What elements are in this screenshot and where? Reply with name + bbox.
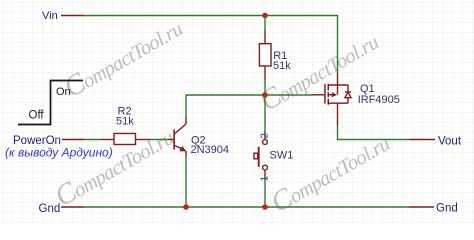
node Gnd label (right) <box>436 203 458 215</box>
waveform Off/On step <box>18 81 83 125</box>
svg-text:Vout: Vout <box>438 136 462 148</box>
label R1 <box>273 50 287 62</box>
label On <box>56 86 71 98</box>
watermark CompactTool.ru (upper-right) <box>255 24 384 117</box>
value 51k (R2) <box>116 116 134 128</box>
pin stub Vout <box>410 139 435 141</box>
label Off <box>29 110 45 122</box>
switch SW1 <box>254 131 267 180</box>
svg-text:(к выводу Ардуино): (к выводу Ардуино) <box>5 146 113 160</box>
resistor R2 <box>114 134 136 145</box>
svg-text:2N3904: 2N3904 <box>191 144 230 156</box>
watermark CompactTool.ru (lower-right) <box>266 126 395 219</box>
junction gate row <box>262 92 268 98</box>
wire Q2 emitter to ground <box>185 156 187 208</box>
pin stub PowerOn <box>62 139 84 141</box>
pin number 1 (SW1) <box>259 175 270 181</box>
junction Q2 emitter/gnd <box>183 204 189 210</box>
svg-text:51k: 51k <box>273 60 291 72</box>
wire SW1 top <box>264 95 266 131</box>
pin R2.1 <box>101 139 115 141</box>
node PowerOn label <box>13 135 61 147</box>
svg-text:Gnd: Gnd <box>39 203 61 215</box>
transistor Q2 <box>168 117 186 156</box>
svg-text:Gnd: Gnd <box>436 203 458 215</box>
watermark CompactTool.ru (lower-left) <box>50 120 179 213</box>
value IRF4905 <box>358 94 400 106</box>
pin R2.2 <box>136 139 151 141</box>
pin stub Vin <box>61 15 84 17</box>
watermark CompactTool.ru (upper-left) <box>59 11 188 104</box>
node Vout label <box>438 136 462 148</box>
wire R1 bottom <box>264 80 266 95</box>
value 2N3904 <box>191 144 230 156</box>
node Vin label <box>42 10 58 22</box>
svg-text:On: On <box>56 86 71 98</box>
wire Vin top rail <box>84 16 338 73</box>
label R2 <box>118 106 132 118</box>
label Q2 <box>191 135 206 147</box>
resistor R1 <box>259 44 271 66</box>
svg-text:SW1: SW1 <box>270 150 294 162</box>
svg-text:Q1: Q1 <box>360 83 375 95</box>
pin stub Gnd right <box>409 206 434 208</box>
svg-text:Off: Off <box>29 110 45 122</box>
label Q1 <box>360 83 375 95</box>
svg-text:51k: 51k <box>116 116 134 128</box>
junction SW1/gnd <box>262 204 268 210</box>
wire PowerOn to R2 <box>84 139 101 141</box>
wire R2 to Q2 base <box>150 139 168 141</box>
svg-text:Vin: Vin <box>42 10 58 22</box>
wire SW1 bottom <box>264 179 266 207</box>
pin R1.2 <box>264 67 266 81</box>
svg-text:IRF4905: IRF4905 <box>358 94 400 106</box>
wire ground rail <box>84 206 409 208</box>
junction Vin/R1 <box>262 13 268 19</box>
svg-text:2: 2 <box>259 133 270 139</box>
pin R1.1 <box>264 30 266 44</box>
pin stub Gnd left <box>61 206 84 208</box>
value 51k (R1) <box>273 60 291 72</box>
pin number 2 (SW1) <box>259 133 270 139</box>
mosfet Q1 <box>311 73 351 126</box>
wire R1 top <box>264 16 266 31</box>
note (к выводу Ардуино) <box>5 146 113 160</box>
node Gnd label (left) <box>39 203 61 215</box>
wire Q1 drain to Vout <box>338 126 411 140</box>
wire gate row <box>186 95 311 117</box>
label SW1 <box>270 150 294 162</box>
